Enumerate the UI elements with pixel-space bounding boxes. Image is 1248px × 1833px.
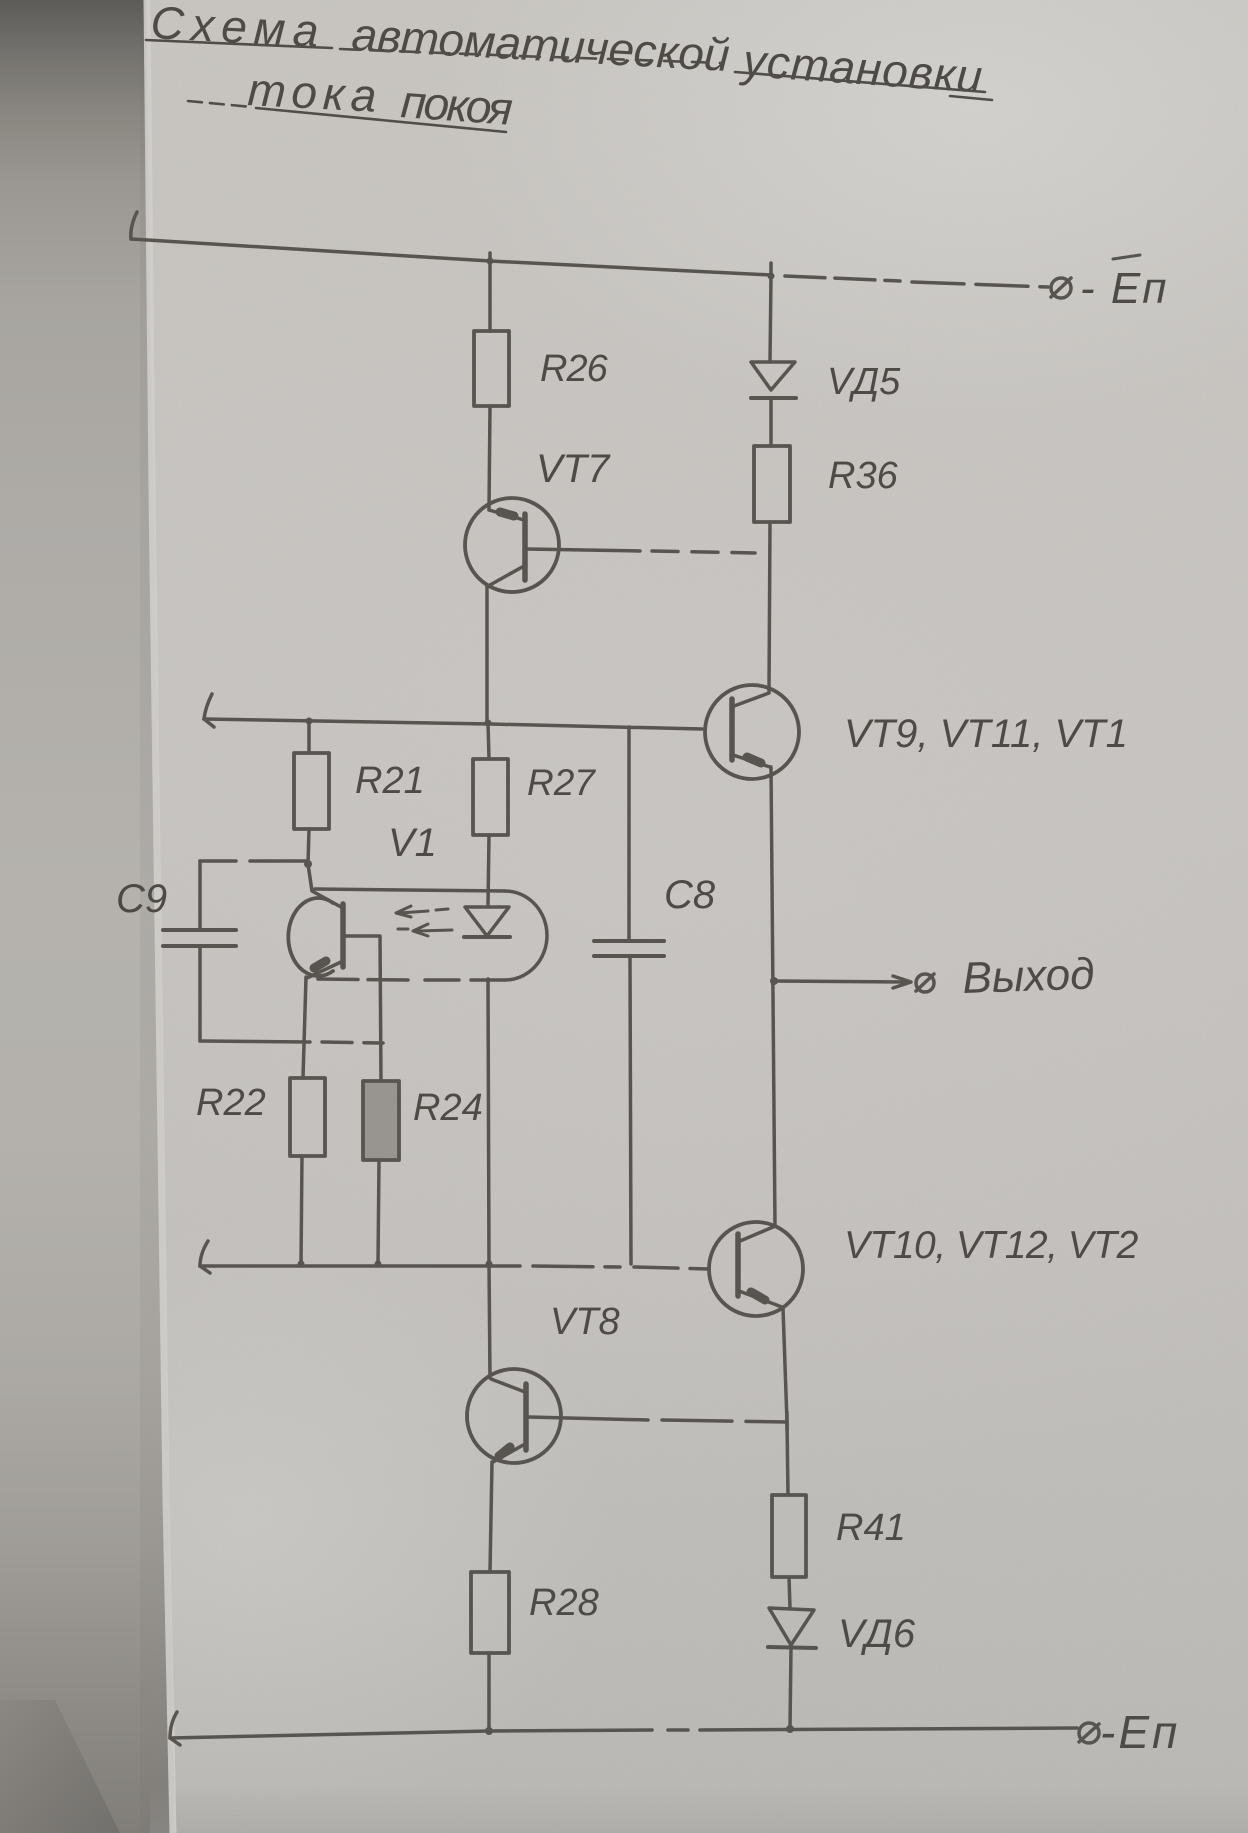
wire: C9 bottom return [200,946,383,1043]
wire: lower-mid rail with arrow [200,1241,709,1273]
title underline 2 [188,101,506,132]
wire: R28 to bottom rail [487,1653,491,1731]
node: VD6 bottom junction [786,1725,794,1733]
transistor VT10 [709,1222,803,1316]
wire: VT7 base lead to right (dashed) [527,549,755,553]
wire: mid-left rail with arrow [204,694,702,729]
label VD5 [827,361,901,403]
wire: rail to R21 [306,718,313,754]
resistor R24 (shaded) [363,1081,399,1160]
label R28 [529,1582,599,1624]
label C9 [116,877,167,921]
wire: VT7 emitter down to mid rail [485,585,489,723]
label R24 [413,1087,483,1129]
wire: R41 to VD6 [789,1577,790,1608]
resistor R27 [473,759,508,835]
wire: R36 down to VT9 collector [769,522,770,692]
transistor VT8 [467,1369,561,1463]
node A: R21 / C9 / opto collector junction [304,860,312,868]
transistor VT9 [705,685,799,779]
label V1 [388,821,437,865]
resistor R28 [471,1572,509,1653]
wire: output line with arrow [774,976,911,988]
label VT10 VT12 VT2 [844,1224,1139,1267]
paper crease highlight along left edge [147,0,173,1833]
wire: VD6 to bottom rail [790,1648,791,1729]
node: VT10 emitter / VT8 base junction [785,1412,789,1430]
label R26 [540,348,609,390]
wire: VT9 emitter down to VT10 collector [771,767,775,1226]
title line 2: тока покоя [246,63,513,135]
wire: opto LED cathode down through lower rail to VT8 [486,979,493,1378]
wire: R26 to VT7 [489,406,490,510]
node: R28 bottom junction [485,1727,493,1735]
label VT7 [536,447,611,491]
node: top rail / VD5 junction [768,263,775,280]
wire: R24 to lower rail [375,1160,382,1268]
capacitor C8 [594,727,664,1264]
capacitor C9 [163,930,236,946]
terminal circle output [916,974,934,992]
resistor R21 [294,753,329,829]
wire: VT8 emitter down to R28 [490,1462,492,1572]
optocoupler phototransistor [288,864,343,978]
label -Ep (top) with macron [1080,264,1168,313]
node: output junction [770,977,778,985]
wire: rail to R26 [488,261,492,331]
label C8 [664,873,716,917]
wire: R22 to lower rail [298,1156,305,1268]
capacitor C9 bracket top [200,861,308,929]
wire: VT8 base lead to VT10 emitter [529,1417,787,1422]
label R22 [196,1082,266,1124]
wire: VT10 emitter down to R41 [783,1308,788,1495]
transistor VT7 [465,498,559,592]
label R21 [355,760,425,802]
label Выход [962,949,1096,1003]
diode VD5 [751,362,796,398]
label VT8 [550,1301,620,1343]
label R36 [828,455,899,497]
node: top rail / R26 junction [487,253,494,265]
terminal circle -Ep (top) [1051,278,1071,298]
terminal circle -Ep (bottom) [1079,1723,1099,1743]
title underline 1 [146,40,992,100]
wire: R21 to node A [308,829,309,864]
optocoupler light arrows [396,906,452,936]
resistor R22 [290,1078,325,1156]
optocoupler LED [464,907,510,937]
diode VD6 [768,1608,816,1648]
photo background left band (paper edge / table) [0,0,178,1833]
wire: opto base lead down to R24 [345,936,381,1081]
wire: +Ep top rail [131,212,1048,287]
wire: -Ep bottom rail with arrow [170,1712,1077,1745]
resistor R26 [474,331,509,406]
resistor R41 [772,1495,806,1577]
resistor R36 [754,446,790,522]
wire: R27 down to opto LED [488,835,489,906]
label VT9 VT11 VT1 [844,712,1128,756]
wire: VD5 to R36 [769,398,773,446]
label R27 [527,762,596,803]
wire: opto emitter down to R22 [303,977,306,1078]
optocoupler V1 body (stadium) [313,889,547,980]
wire: rail to VD5 [770,276,771,362]
label R41 [836,1507,906,1549]
label VD6 [838,1612,916,1656]
wire: rail to R27 [485,720,492,760]
label -Ep (bottom) [1100,1706,1180,1758]
title line 1: Схема автоматической установки [149,0,984,103]
